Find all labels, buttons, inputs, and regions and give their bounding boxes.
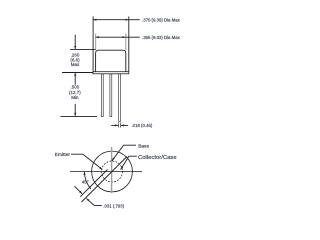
dimension .355 leader (126, 36, 140, 38)
base leader (112, 145, 136, 161)
outer circle bottom view (92, 151, 133, 192)
lead 3 extension stub left (118, 122, 120, 127)
tab lower edge line 45deg (82, 157, 128, 203)
svg-text:Collector/Case: Collector/Case (138, 155, 177, 161)
collector leader (121, 156, 137, 169)
extension line body left (light) (95, 34, 97, 51)
svg-text:.355 (9.03) Dia Max: .355 (9.03) Dia Max (142, 35, 181, 40)
svg-text:.031 (.793): .031 (.793) (103, 203, 124, 208)
extension line flange left (92, 16, 94, 71)
svg-text:.370 (9.39) Dia Max: .370 (9.39) Dia Max (142, 17, 181, 22)
dimension .018 left arrow (111, 124, 118, 126)
dimension .370 line (93, 19, 129, 21)
tab width arrow upper-left (74, 186, 82, 194)
svg-text:.018 (0.45): .018 (0.45) (132, 123, 153, 128)
svg-text:Max: Max (71, 62, 80, 67)
svg-text:Emitter: Emitter (55, 152, 71, 158)
svg-text:Min: Min (71, 95, 79, 100)
dimension .260/.500 shared arrow (74, 73, 76, 85)
dimension .370 leader (129, 19, 140, 21)
can body outline (96, 50, 126, 71)
lead 3 (119, 74, 121, 122)
inner lead circle dashed (102, 161, 123, 182)
emitter leader (71, 154, 102, 169)
horizontal centerline (70, 171, 142, 173)
svg-text:45°: 45° (82, 180, 89, 185)
dimension .500 bottom arrow (74, 104, 76, 116)
dimension .260 top arrow (74, 35, 76, 50)
leader .031 arrow (86, 198, 94, 205)
extension line seating plane (62, 72, 93, 74)
extension line lead tips (61, 115, 98, 117)
can flange (93, 72, 129, 74)
dimension .355 line (96, 36, 126, 38)
extension line flange right (128, 16, 130, 71)
extension line can top (.260) (70, 48, 95, 50)
lead 2 (110, 74, 112, 117)
dimension .018 right arrow (121, 124, 128, 126)
lead 1 (101, 74, 103, 117)
lead 3 extension stub right (120, 122, 122, 127)
vertical centerline (light) (111, 147, 113, 193)
45deg angle arc (84, 172, 91, 189)
leader .031 tail (95, 205, 102, 207)
svg-text:Base: Base (138, 144, 149, 150)
tab upper edge line 45deg (80, 170, 107, 197)
extension line body right (light) (125, 34, 127, 51)
